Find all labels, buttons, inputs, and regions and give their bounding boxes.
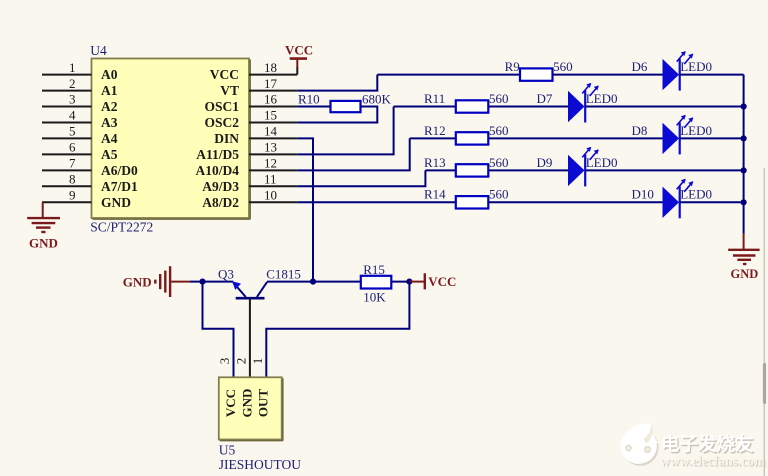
svg-text:D10: D10 <box>632 187 654 202</box>
svg-text:560: 560 <box>489 187 509 202</box>
svg-text:1: 1 <box>69 60 76 75</box>
svg-text:VT: VT <box>220 83 239 98</box>
svg-text:GND: GND <box>731 267 759 281</box>
svg-text:14: 14 <box>264 124 278 139</box>
svg-text:18: 18 <box>264 60 277 75</box>
svg-text:R9: R9 <box>505 59 520 74</box>
svg-text:R10: R10 <box>298 92 320 107</box>
svg-text:1: 1 <box>250 358 265 365</box>
svg-text:A7/D1: A7/D1 <box>101 179 138 194</box>
svg-text:LED0: LED0 <box>586 155 618 170</box>
svg-text:A9/D3: A9/D3 <box>202 179 239 194</box>
svg-text:A0: A0 <box>101 67 118 82</box>
svg-text:560: 560 <box>489 155 509 170</box>
svg-text:A3: A3 <box>101 115 118 130</box>
svg-text:R13: R13 <box>424 155 446 170</box>
svg-text:6: 6 <box>69 140 76 155</box>
svg-text:9: 9 <box>69 188 76 203</box>
svg-text:D8: D8 <box>632 123 648 138</box>
svg-text:680K: 680K <box>362 92 392 107</box>
svg-text:13: 13 <box>264 140 277 155</box>
svg-text:8: 8 <box>69 172 76 187</box>
svg-text:560: 560 <box>553 59 573 74</box>
svg-text:电子发烧友: 电子发烧友 <box>661 434 754 456</box>
svg-text:D7: D7 <box>537 91 553 106</box>
svg-text:C1815: C1815 <box>266 267 301 282</box>
svg-text:U4: U4 <box>90 43 107 58</box>
svg-text:OSC2: OSC2 <box>204 115 239 130</box>
svg-text:10K: 10K <box>363 289 386 304</box>
svg-text:A2: A2 <box>101 99 118 114</box>
svg-text:GND: GND <box>29 236 58 251</box>
svg-text:VCC: VCC <box>285 43 313 58</box>
svg-text:4: 4 <box>69 108 76 123</box>
svg-text:A4: A4 <box>101 131 118 146</box>
svg-text:A1: A1 <box>101 83 118 98</box>
svg-text:A11/D5: A11/D5 <box>196 147 239 162</box>
svg-text:Q3: Q3 <box>218 267 234 282</box>
svg-text:15: 15 <box>264 108 277 123</box>
svg-text:VCC: VCC <box>223 389 238 417</box>
svg-text:VCC: VCC <box>428 274 456 289</box>
svg-text:A8/D2: A8/D2 <box>202 195 239 210</box>
svg-text:A6/D0: A6/D0 <box>101 163 138 178</box>
svg-text:JIESHOUTOU: JIESHOUTOU <box>219 457 302 472</box>
svg-text:560: 560 <box>489 123 509 138</box>
svg-text:LED0: LED0 <box>680 123 712 138</box>
svg-text:D6: D6 <box>632 59 648 74</box>
svg-text:17: 17 <box>264 76 278 91</box>
svg-text:OSC1: OSC1 <box>204 99 239 114</box>
svg-text:R14: R14 <box>424 187 446 202</box>
svg-text:10: 10 <box>264 188 277 203</box>
svg-text:SC/PT2272: SC/PT2272 <box>90 220 153 235</box>
svg-text:2: 2 <box>234 358 249 365</box>
svg-text:16: 16 <box>264 92 278 107</box>
svg-text:A10/D4: A10/D4 <box>196 163 240 178</box>
svg-text:U5: U5 <box>219 443 236 458</box>
svg-text:3: 3 <box>217 358 232 365</box>
svg-text:VCC: VCC <box>210 67 239 82</box>
svg-text:5: 5 <box>69 124 76 139</box>
svg-text:www.elecfans.com: www.elecfans.com <box>660 454 766 469</box>
svg-text:11: 11 <box>264 172 277 187</box>
svg-text:DIN: DIN <box>214 131 239 146</box>
svg-text:560: 560 <box>489 91 509 106</box>
svg-text:A5: A5 <box>101 147 118 162</box>
svg-text:OUT: OUT <box>255 389 270 418</box>
svg-text:R12: R12 <box>424 123 446 138</box>
svg-text:LED0: LED0 <box>586 91 618 106</box>
svg-text:LED0: LED0 <box>680 59 712 74</box>
svg-text:D9: D9 <box>537 155 553 170</box>
svg-text:7: 7 <box>69 156 76 171</box>
svg-text:R11: R11 <box>424 91 445 106</box>
svg-text:GND: GND <box>123 274 152 289</box>
svg-text:2: 2 <box>69 76 76 91</box>
svg-text:LED0: LED0 <box>680 187 712 202</box>
svg-text:R15: R15 <box>363 262 385 277</box>
svg-text:12: 12 <box>264 156 277 171</box>
svg-text:3: 3 <box>69 92 76 107</box>
svg-text:GND: GND <box>239 389 254 418</box>
svg-text:GND: GND <box>101 195 131 210</box>
